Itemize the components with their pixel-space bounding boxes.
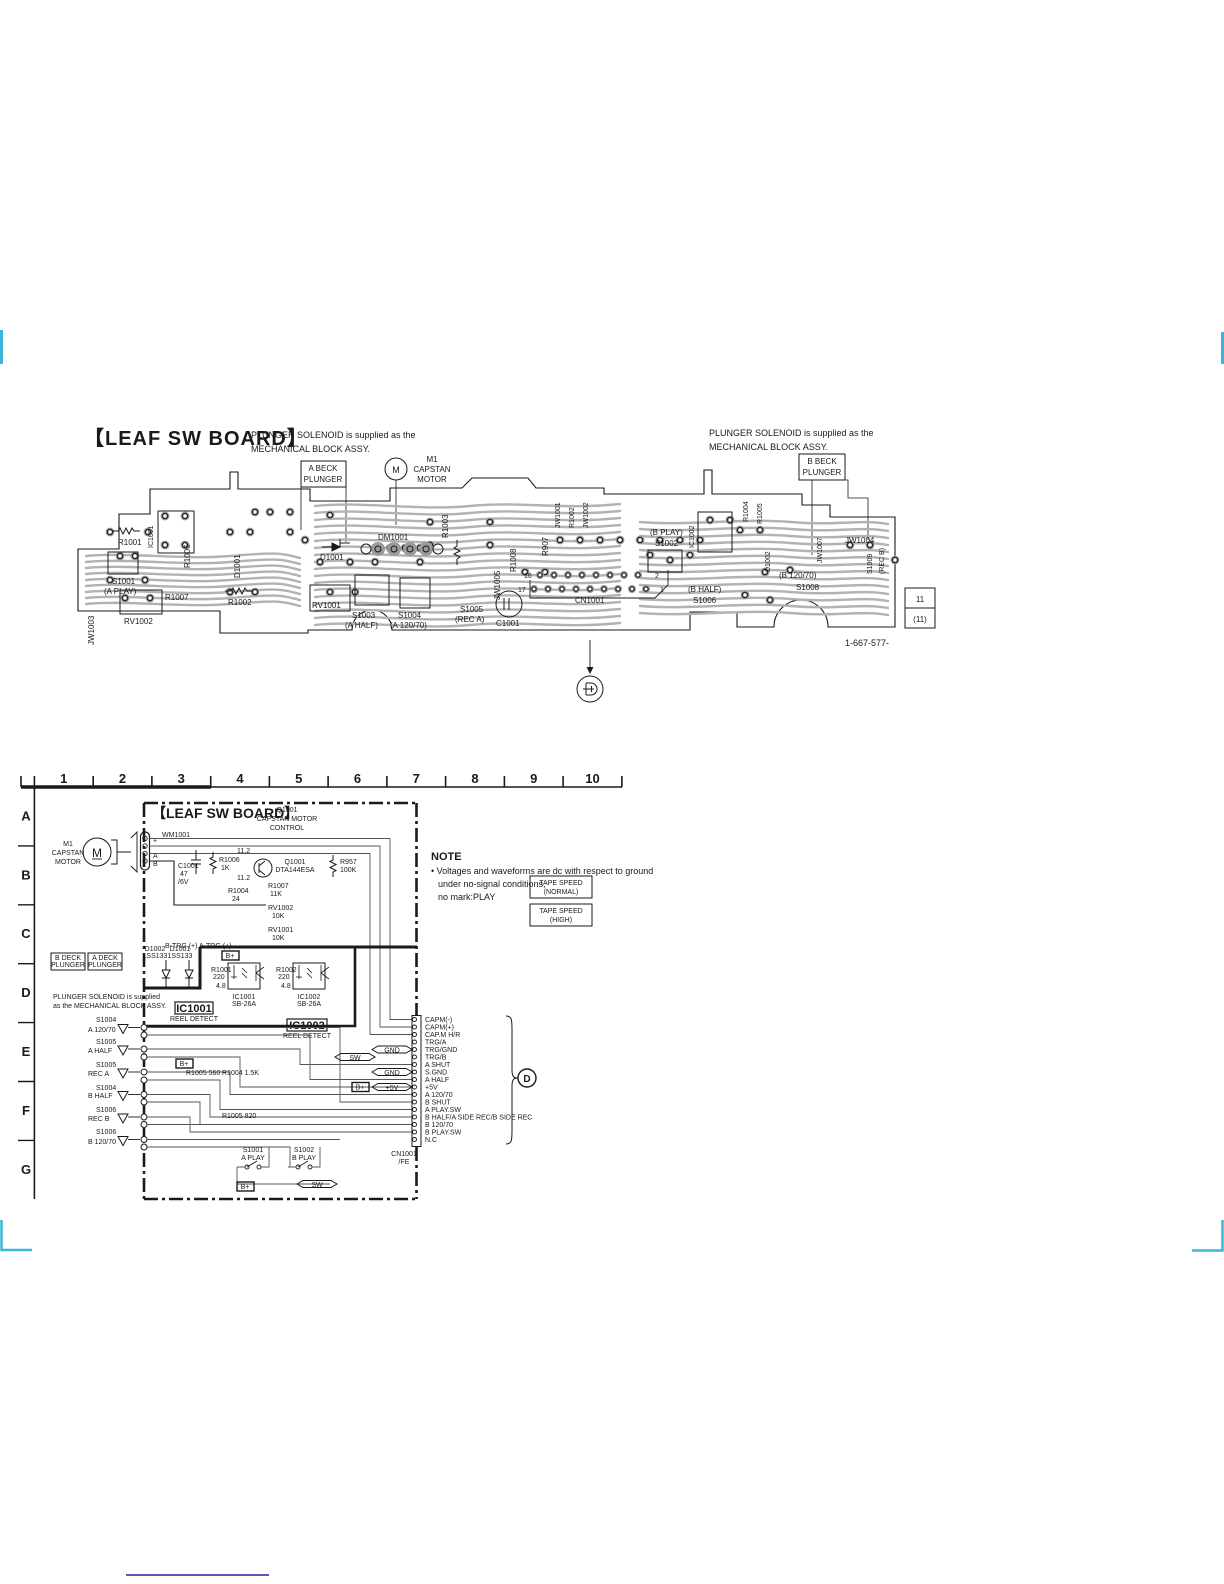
svg-text:Q1001: Q1001 <box>276 807 297 814</box>
svg-text:Q1001: Q1001 <box>284 859 305 866</box>
svg-text:10K: 10K <box>272 935 285 942</box>
GND arrow S.GND <box>372 1069 412 1076</box>
svg-text:C1001: C1001 <box>178 863 199 870</box>
svg-text:D: D <box>523 1074 530 1085</box>
svg-text:A: A <box>153 853 158 860</box>
svg-text:A HALF: A HALF <box>425 1077 449 1084</box>
svg-text:JW1005: JW1005 <box>493 570 502 600</box>
svg-text:WM1001: WM1001 <box>162 832 190 839</box>
svg-text:GND: GND <box>384 1047 400 1054</box>
svg-text:B+: B+ <box>241 1184 250 1191</box>
svg-text:9: 9 <box>530 771 537 786</box>
resistor R1001 (pcb) <box>112 528 140 534</box>
svg-text:JW1004: JW1004 <box>845 536 875 545</box>
svg-text:B+: B+ <box>356 1085 365 1092</box>
svg-text:B PLAY: B PLAY <box>292 1155 316 1162</box>
SW arrow E row <box>335 1054 375 1061</box>
svg-text:10: 10 <box>585 771 599 786</box>
svg-text:A 120/70: A 120/70 <box>88 1027 116 1034</box>
svg-text:(B 120/70): (B 120/70) <box>779 571 817 580</box>
svg-text:MOTOR: MOTOR <box>417 475 447 484</box>
svg-text:+5V: +5V <box>386 1085 399 1092</box>
svg-text:CAPSTAN MOTOR: CAPSTAN MOTOR <box>257 816 317 823</box>
svg-text:D1001: D1001 <box>170 946 191 953</box>
svg-text:4.8: 4.8 <box>216 983 226 990</box>
svg-text:S1008: S1008 <box>796 583 820 592</box>
svg-text:JW1003: JW1003 <box>87 615 96 645</box>
CN1001 outline <box>530 570 668 598</box>
optocoupler IC1002 <box>293 963 325 989</box>
register mark bottom-left corner <box>2 1220 33 1250</box>
GND arrow TRG/GND <box>372 1046 412 1053</box>
svg-text:R1008: R1008 <box>509 548 518 572</box>
svg-text:NOTE: NOTE <box>431 851 462 863</box>
R957 resistor <box>330 855 336 877</box>
svg-text:(HIGH): (HIGH) <box>550 917 572 924</box>
svg-text:A 120/70: A 120/70 <box>425 1092 453 1099</box>
svg-text:R1005 560: R1005 560 <box>186 1070 220 1077</box>
svg-text:REEL DETECT: REEL DETECT <box>170 1016 219 1023</box>
svg-text:G: G <box>21 1162 31 1177</box>
svg-text:3: 3 <box>178 771 185 786</box>
svg-text:IC1002: IC1002 <box>689 525 696 548</box>
connector CN1001 pads <box>530 571 650 593</box>
A BECK PLUNGER box (schematic) <box>88 953 122 970</box>
switch S1001 (pcb) <box>108 552 138 574</box>
svg-text:R1006: R1006 <box>183 544 192 568</box>
IC1001 (pcb) <box>158 511 194 553</box>
C1001 (pcb) <box>496 591 522 617</box>
svg-text:D1002: D1002 <box>145 946 166 953</box>
svg-text:R1004: R1004 <box>743 501 750 522</box>
motor M1 circle (pcb) <box>385 458 407 480</box>
svg-text:RV1002: RV1002 <box>268 905 293 912</box>
svg-text:under no-signal conditions,: under no-signal conditions, <box>438 879 546 889</box>
schematic dash-dot border <box>144 802 417 805</box>
pcb pads <box>106 508 900 605</box>
svg-text:REEL DETECT: REEL DETECT <box>283 1033 332 1040</box>
svg-text:(B PLAY): (B PLAY) <box>650 528 683 537</box>
svg-text:1K: 1K <box>221 865 230 872</box>
svg-text:S1005: S1005 <box>96 1062 116 1069</box>
svg-text:R1007: R1007 <box>165 593 189 602</box>
svg-text:(B HALF): (B HALF) <box>688 585 722 594</box>
svg-text:JW1001: JW1001 <box>555 502 562 528</box>
svg-text:16: 16 <box>524 573 532 580</box>
svg-text:D: D <box>21 985 30 1000</box>
optocoupler IC1001 <box>228 963 260 989</box>
svg-text:TRG/A: TRG/A <box>425 1040 447 1047</box>
svg-text:S1006: S1006 <box>693 596 717 605</box>
svg-text:S1002: S1002 <box>655 539 679 548</box>
IC1001 label box <box>175 1002 213 1014</box>
svg-text:R1002: R1002 <box>276 967 297 974</box>
svg-text:SW: SW <box>311 1182 323 1189</box>
svg-text:R1003: R1003 <box>441 514 450 538</box>
svg-text:PLUNGER: PLUNGER <box>51 962 85 969</box>
switch wires to connector <box>147 1028 412 1168</box>
svg-text:A HALF: A HALF <box>88 1048 112 1055</box>
pcb copper traces (gray) <box>86 504 888 626</box>
svg-text:6: 6 <box>354 771 361 786</box>
svg-text:PLUNGER: PLUNGER <box>304 475 343 484</box>
svg-text:A: A <box>21 809 31 824</box>
svg-text:CAPSTAN: CAPSTAN <box>52 850 85 857</box>
svg-text:1-667-577-: 1-667-577- <box>845 638 889 648</box>
B BECK PLUNGER label box <box>799 454 845 480</box>
svg-text:4: 4 <box>236 771 244 786</box>
B+ box row D <box>222 951 239 960</box>
svg-text:M: M <box>92 846 102 860</box>
IC1002 label box <box>287 1019 327 1031</box>
IC1002 (pcb) <box>698 512 732 552</box>
svg-text:no mark:PLAY: no mark:PLAY <box>438 892 495 902</box>
S1002 (pcb) <box>648 550 682 572</box>
svg-text:GND: GND <box>384 1070 400 1077</box>
svg-text:TAPE SPEED: TAPE SPEED <box>539 880 582 887</box>
svg-text:S1001: S1001 <box>243 1147 263 1154</box>
svg-text:B DECK: B DECK <box>55 955 81 962</box>
svg-text:D1001: D1001 <box>233 554 242 578</box>
svg-text:10K: 10K <box>272 913 285 920</box>
svg-text:TRG/B: TRG/B <box>425 1055 447 1062</box>
blue footer line <box>126 1574 269 1576</box>
svg-text:CAPM(-): CAPM(-) <box>425 1017 452 1024</box>
RV1001 (pcb) <box>310 585 350 611</box>
svg-text:D1001: D1001 <box>320 553 344 562</box>
B+ box bottom <box>237 1182 254 1191</box>
svg-text:/FE: /FE <box>399 1159 410 1166</box>
diode D1002 <box>162 960 170 988</box>
svg-text:7: 7 <box>413 771 420 786</box>
svg-text:A PLAY.SW: A PLAY.SW <box>425 1107 461 1114</box>
brace (D) <box>506 1016 518 1144</box>
svg-text:R907: R907 <box>541 536 550 556</box>
svg-text:IC1001: IC1001 <box>176 1003 211 1015</box>
svg-text:R1005 820: R1005 820 <box>222 1113 256 1120</box>
svg-text:B: B <box>153 861 158 868</box>
B+ box (F row right) <box>619 1019 621 1021</box>
svg-text:1: 1 <box>60 771 67 786</box>
svg-text:S1004: S1004 <box>96 1085 116 1092</box>
svg-text:4.8: 4.8 <box>281 983 291 990</box>
svg-text:D1002: D1002 <box>765 551 772 572</box>
svg-text:R1001: R1001 <box>211 967 232 974</box>
svg-text:S1004: S1004 <box>398 611 422 620</box>
svg-text:A BECK: A BECK <box>309 464 339 473</box>
PCB board outline <box>78 470 895 633</box>
svg-text:DTA144ESA: DTA144ESA <box>275 867 314 874</box>
svg-text:B PLAY.SW: B PLAY.SW <box>425 1130 462 1137</box>
svg-text:A SHUT: A SHUT <box>425 1062 451 1069</box>
svg-text:S1003: S1003 <box>352 611 376 620</box>
svg-text:S1002: S1002 <box>294 1147 314 1154</box>
svg-text:R1004: R1004 <box>228 888 249 895</box>
svg-text:as the MECHANICAL BLOCK ASSY.: as the MECHANICAL BLOCK ASSY. <box>53 1003 167 1010</box>
waveform D reference circle <box>589 640 591 672</box>
svg-text:C: C <box>21 926 31 941</box>
svg-text:CONTROL: CONTROL <box>270 825 304 832</box>
svg-text:R1004 1.5K: R1004 1.5K <box>222 1070 259 1077</box>
svg-text:R1002: R1002 <box>569 507 576 528</box>
svg-text:11.2: 11.2 <box>237 848 250 855</box>
svg-text:R1006: R1006 <box>219 857 240 864</box>
svg-text:PLUNGER: PLUNGER <box>88 962 122 969</box>
svg-text:100K: 100K <box>340 867 357 874</box>
svg-text:RV1001: RV1001 <box>312 601 341 610</box>
svg-text:47: 47 <box>180 871 188 878</box>
schematic grid ruler <box>21 785 211 788</box>
svg-text:JW1007: JW1007 <box>817 537 824 563</box>
svg-text:RV1002: RV1002 <box>124 617 153 626</box>
connector pill <box>141 832 150 870</box>
register mark right <box>1221 332 1224 364</box>
svg-text:R1005: R1005 <box>757 503 764 524</box>
svg-text:2: 2 <box>655 573 659 580</box>
svg-text:SB-26A: SB-26A <box>232 1001 256 1008</box>
svg-text:R957: R957 <box>340 859 357 866</box>
C1001 cap <box>191 850 201 874</box>
svg-text:(A HALF): (A HALF) <box>345 621 378 630</box>
svg-text:+: + <box>153 838 157 845</box>
svg-text:R1001: R1001 <box>118 538 142 547</box>
RV1002 (pcb) <box>120 590 162 614</box>
svg-text:B+: B+ <box>180 1061 189 1068</box>
svg-text:17: 17 <box>518 587 526 594</box>
connector CN1001 (schematic) <box>412 1016 421 1147</box>
motor leader line <box>395 480 397 525</box>
svg-text:S1005: S1005 <box>460 605 484 614</box>
svg-text:MECHANICAL BLOCK ASSY.: MECHANICAL BLOCK ASSY. <box>251 444 370 454</box>
svg-text:TRG/GND: TRG/GND <box>425 1047 457 1054</box>
svg-text:MECHANICAL BLOCK ASSY.: MECHANICAL BLOCK ASSY. <box>709 442 828 452</box>
svg-text:(NORMAL): (NORMAL) <box>544 889 579 896</box>
svg-text:11: 11 <box>916 595 925 604</box>
svg-text:R1002: R1002 <box>228 598 252 607</box>
svg-text:PLUNGER SOLENOID is supplied a: PLUNGER SOLENOID is supplied as the <box>251 430 416 440</box>
svg-text:• Voltages and waveforms are d: • Voltages and waveforms are dc with res… <box>431 866 653 876</box>
svg-text:M1: M1 <box>63 841 73 848</box>
svg-text:N.C: N.C <box>425 1137 437 1144</box>
svg-text:(A 120/70): (A 120/70) <box>390 621 427 630</box>
B+ box near +5V <box>352 1083 369 1092</box>
svg-text:PLUNGER SOLENOID is supplied a: PLUNGER SOLENOID is supplied as the <box>709 428 874 438</box>
svg-text:S1004: S1004 <box>96 1017 116 1024</box>
schematic wires <box>150 839 413 1035</box>
svg-text:(11): (11) <box>913 615 927 624</box>
svg-text:S1006: S1006 <box>96 1107 116 1114</box>
svg-text:PLUNGER: PLUNGER <box>803 468 842 477</box>
B BECK PLUNGER leader lines <box>812 480 868 555</box>
svg-text:SW: SW <box>349 1055 361 1062</box>
svg-text:IC1002: IC1002 <box>289 1020 324 1032</box>
svg-text:B HALF: B HALF <box>88 1093 113 1100</box>
svg-text:CAP.M H/R: CAP.M H/R <box>425 1032 460 1039</box>
DM1001 (pcb) <box>371 542 433 556</box>
thick bus lines <box>200 946 417 949</box>
svg-text:PLUNGER SOLENOID is supplied: PLUNGER SOLENOID is supplied <box>53 994 160 1001</box>
svg-text:CN1001: CN1001 <box>391 1151 417 1158</box>
SW arrow bottom <box>297 1181 337 1188</box>
row letter border <box>33 787 35 1199</box>
svg-text:IC1002: IC1002 <box>298 994 321 1001</box>
register mark bottom-right corner <box>1192 1220 1223 1251</box>
svg-text:M1: M1 <box>426 455 438 464</box>
svg-text:B 120/70: B 120/70 <box>425 1122 453 1129</box>
svg-text:CN1001: CN1001 <box>575 596 605 605</box>
svg-text:11K: 11K <box>270 891 282 898</box>
svg-text:2: 2 <box>119 771 126 786</box>
R1003 resistor vertical <box>454 540 460 565</box>
R1006 resistor <box>210 852 216 874</box>
motor frame bracket <box>111 840 117 864</box>
B+ box (E row) <box>176 1059 193 1068</box>
svg-text:1SS133: 1SS133 <box>143 953 168 960</box>
diode D1001 symbol <box>322 539 350 551</box>
svg-text:220: 220 <box>278 974 290 981</box>
svg-text:REC A: REC A <box>88 1071 109 1078</box>
svg-text:24: 24 <box>232 896 240 903</box>
revision box <box>905 588 935 608</box>
svg-text:220: 220 <box>213 974 225 981</box>
+5V arrow <box>372 1084 412 1091</box>
svg-text:11.2: 11.2 <box>237 875 250 882</box>
svg-text:B HALF/A SIDE REC/B SIDE REC: B HALF/A SIDE REC/B SIDE REC <box>425 1115 532 1122</box>
svg-text:IC1001: IC1001 <box>148 525 155 548</box>
S1004 (pcb) <box>400 578 430 608</box>
svg-text:S1006: S1006 <box>96 1129 116 1136</box>
svg-text:JW1002: JW1002 <box>583 502 590 528</box>
B DECK PLUNGER box (schematic) <box>51 953 85 970</box>
svg-text:1SS133: 1SS133 <box>168 953 193 960</box>
svg-text:A DECK: A DECK <box>92 955 118 962</box>
svg-text:M: M <box>392 465 400 475</box>
svg-text:+5V: +5V <box>425 1085 438 1092</box>
TAPE SPEED HIGH box <box>530 904 592 926</box>
svg-text:S1009: S1009 <box>867 554 874 574</box>
S1003 (pcb) <box>355 575 389 605</box>
svg-text:/6V: /6V <box>178 879 189 886</box>
TAPE SPEED NORMAL box <box>530 876 592 898</box>
svg-text:B SHUT: B SHUT <box>425 1100 451 1107</box>
svg-text:B BECK: B BECK <box>807 457 837 466</box>
A BECK PLUNGER leader lines <box>301 487 346 542</box>
svg-text:MOTOR: MOTOR <box>55 859 81 866</box>
bottom wires <box>237 1147 330 1184</box>
svg-text:C1001: C1001 <box>496 619 520 628</box>
svg-text:B 120/70: B 120/70 <box>88 1139 116 1146</box>
svg-text:B: B <box>21 867 30 882</box>
svg-text:TAPE SPEED: TAPE SPEED <box>539 908 582 915</box>
svg-text:S1005: S1005 <box>96 1039 116 1046</box>
register mark left <box>0 330 3 364</box>
R1004 24 <box>240 882 250 888</box>
R1002 (pcb) <box>225 588 253 594</box>
svg-text:SB-26A: SB-26A <box>297 1001 321 1008</box>
svg-text:(REC A): (REC A) <box>455 615 485 624</box>
motor connector chevron <box>131 832 137 872</box>
svg-text:CAPSTAN: CAPSTAN <box>413 465 450 474</box>
transistor Q1001 <box>254 859 272 877</box>
svg-text:8: 8 <box>471 771 478 786</box>
A BECK PLUNGER label box <box>301 461 346 487</box>
svg-text:REC B: REC B <box>88 1116 110 1123</box>
svg-text:S1001: S1001 <box>112 577 136 586</box>
svg-text:F: F <box>22 1103 30 1118</box>
svg-text:DM1001: DM1001 <box>378 533 409 542</box>
svg-text:A PLAY: A PLAY <box>241 1155 265 1162</box>
svg-text:RV1001: RV1001 <box>268 927 293 934</box>
svg-text:5: 5 <box>295 771 302 786</box>
svg-text:E: E <box>22 1044 31 1059</box>
svg-text:B+: B+ <box>226 953 235 960</box>
svg-text:CAPM(+): CAPM(+) <box>425 1025 454 1032</box>
motor M1 (schematic) <box>83 838 111 866</box>
svg-text:(REC B): (REC B) <box>879 548 886 574</box>
svg-text:IC1001: IC1001 <box>233 994 256 1001</box>
diode D1001 <box>185 960 193 988</box>
svg-text:R1007: R1007 <box>268 883 289 890</box>
svg-text:S.GND: S.GND <box>425 1070 447 1077</box>
